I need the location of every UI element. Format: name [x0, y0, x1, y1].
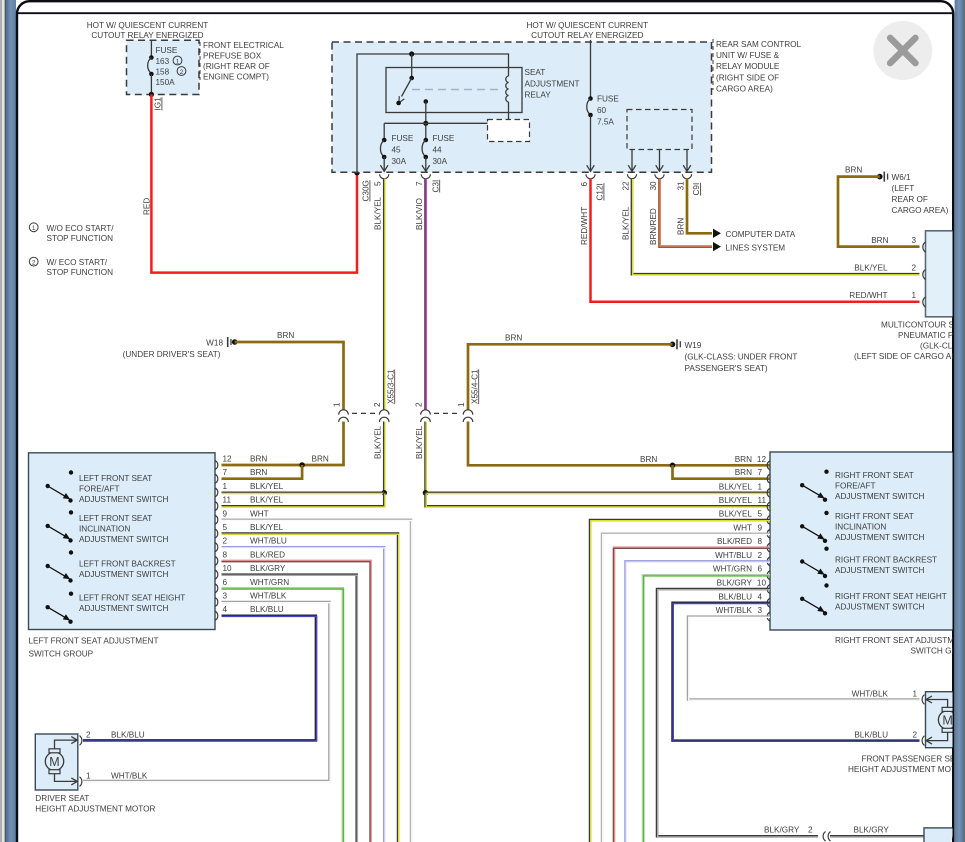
wire subbox out 2 [656, 150, 664, 172]
svg-text:2: 2 [911, 264, 916, 273]
svg-text:C9I: C9I [692, 183, 701, 196]
svg-text:W/O ECO START/: W/O ECO START/ [47, 224, 115, 233]
wire BRN pin31 to computer data [687, 179, 712, 234]
svg-text:FORE/AFT: FORE/AFT [79, 485, 119, 494]
wire BLK/YEL SAM pin5 down [383, 179, 386, 410]
wire RED/WHT pin6 to multicontour pin1 [591, 179, 920, 302]
svg-text:BLK/BLU: BLK/BLU [250, 605, 284, 614]
wire BRN/RED pin30 to computer data [660, 179, 713, 247]
svg-text:12: 12 [757, 455, 767, 464]
svg-text:BRN: BRN [505, 333, 522, 342]
svg-text:BLK/RED: BLK/RED [717, 537, 752, 546]
wire subbox out 1 [628, 150, 636, 172]
wire BRN W18 to connector X55/3 pin1 [235, 342, 344, 410]
svg-text:BRN/RED: BRN/RED [649, 208, 658, 245]
wire WHT/BLK left pin3 to driver motor pin1 [83, 602, 329, 781]
svg-text:2: 2 [757, 551, 762, 560]
svg-text:2: 2 [32, 260, 36, 267]
label passenger motor [848, 755, 965, 775]
svg-text:22: 22 [622, 181, 631, 191]
svg-text:W19: W19 [685, 341, 702, 350]
svg-text:C12I: C12I [596, 183, 605, 200]
svg-text:FRONT PASSENGER SEAT: FRONT PASSENGER SEAT [862, 755, 965, 764]
svg-text:1: 1 [457, 402, 466, 407]
wire BLK/BLU left pin4 to driver motor pin2 [83, 616, 316, 741]
svg-text:BLK/RED: BLK/RED [250, 550, 285, 559]
svg-text:UNIT W/ FUSE &: UNIT W/ FUSE & [716, 51, 780, 60]
svg-text:ADJUSTMENT SWITCH: ADJUSTMENT SWITCH [79, 495, 169, 504]
svg-text:W6/1: W6/1 [892, 173, 912, 182]
svg-text:2: 2 [86, 731, 91, 740]
close button [873, 21, 932, 80]
left gray gutter [0, 0, 2, 842]
svg-text:12: 12 [223, 455, 233, 464]
right box wire colour labels [713, 455, 753, 615]
svg-text:FUSE: FUSE [156, 46, 178, 55]
svg-text:WHT/BLK: WHT/BLK [716, 606, 753, 615]
svg-text:WHT: WHT [733, 523, 752, 532]
svg-text:WHT/GRN: WHT/GRN [713, 565, 752, 574]
svg-text:4: 4 [757, 592, 762, 601]
svg-text:1: 1 [333, 402, 342, 407]
svg-text:3: 3 [757, 606, 762, 615]
svg-text:2: 2 [223, 537, 228, 546]
svg-text:PREFUSE BOX: PREFUSE BOX [203, 51, 262, 60]
wire WHT right pin9 [602, 534, 770, 842]
dashed component box lower [488, 120, 530, 142]
wire top rail inside SAM [357, 54, 509, 173]
switch left fore/aft [46, 470, 169, 504]
wire BRN W19 to connector X55/4 pin1 [468, 344, 673, 409]
svg-text:(UNDER DRIVER'S SEAT): (UNDER DRIVER'S SEAT) [123, 350, 221, 359]
svg-text:FUSE: FUSE [392, 134, 414, 143]
svg-text:STOP FUNCTION: STOP FUNCTION [47, 234, 114, 243]
junction RED at SAM bottom [354, 170, 360, 176]
svg-text:ADJUSTMENT SWITCH: ADJUSTMENT SWITCH [79, 570, 169, 579]
label left switch group [29, 637, 159, 659]
driver seat height adjustment motor box [35, 734, 78, 790]
svg-text:C3I: C3I [431, 180, 440, 193]
label seat adjustment relay [525, 68, 580, 100]
svg-text:BLK/GRY: BLK/GRY [717, 579, 753, 588]
svg-text:INCLINATION: INCLINATION [835, 523, 886, 532]
svg-text:M: M [49, 755, 59, 769]
relay mechanical dashed link [412, 89, 503, 91]
svg-text:BLK/YEL: BLK/YEL [250, 496, 284, 505]
fuse F45 30A [380, 123, 413, 171]
svg-text:SEAT: SEAT [525, 68, 546, 77]
svg-text:11: 11 [223, 496, 232, 505]
fuse F60 7.5A [587, 40, 620, 171]
svg-text:ENGINE COMPT): ENGINE COMPT) [203, 73, 269, 82]
svg-text:9: 9 [223, 509, 228, 518]
svg-text:HOT W/ QUIESCENT CURRENT: HOT W/ QUIESCENT CURRENT [87, 21, 209, 30]
motor M1 symbol [45, 737, 77, 785]
front electrical prefuse box [127, 40, 200, 94]
right blue scrollbar strip [955, 0, 964, 842]
svg-text:PASSENGER'S SEAT): PASSENGER'S SEAT) [685, 364, 768, 373]
svg-text:44: 44 [433, 146, 443, 155]
svg-text:10: 10 [757, 579, 767, 588]
svg-text:BLK/YEL: BLK/YEL [719, 482, 753, 491]
wire WHT/BLU right pin2 [626, 561, 771, 842]
wire WHT/GRN right pin6 [643, 575, 770, 842]
svg-text:FRONT ELECTRICAL: FRONT ELECTRICAL [203, 41, 284, 50]
svg-text:3: 3 [911, 236, 916, 245]
junction BLK/YEL right [423, 490, 429, 496]
svg-text:HOT W/ QUIESCENT CURRENT: HOT W/ QUIESCENT CURRENT [526, 21, 648, 30]
wire BLK/BLU right pin4 to passenger motor pin2 [673, 603, 920, 741]
svg-text:6: 6 [580, 182, 589, 187]
svg-text:7.5A: 7.5A [597, 118, 614, 127]
wire BLK/YEL left pin5 [222, 534, 399, 842]
inline connector bottom BLK/GRY [823, 832, 830, 842]
wire BLK/YEL below X55/4 [424, 422, 427, 493]
svg-text:ADJUSTMENT: ADJUSTMENT [525, 79, 580, 88]
svg-text:BLK/GRY: BLK/GRY [250, 564, 286, 573]
svg-text:BRN: BRN [312, 455, 329, 464]
wire coil to sub box [508, 102, 510, 120]
label HOT feed left [87, 21, 209, 40]
label computer data lines system [726, 230, 796, 252]
junction node fuse feed [423, 121, 428, 126]
svg-text:ADJUSTMENT SWITCH: ADJUSTMENT SWITCH [79, 535, 169, 544]
svg-text:BRN: BRN [250, 455, 267, 464]
svg-text:CARGO AREA): CARGO AREA) [892, 206, 949, 215]
front passenger seat height adjustment motor box [926, 692, 965, 748]
svg-text:X55/3-C1: X55/3-C1 [386, 369, 395, 404]
svg-text:INCLINATION: INCLINATION [79, 525, 130, 534]
svg-text:ADJUSTMENT SWITCH: ADJUSTMENT SWITCH [835, 566, 925, 575]
switch left seat height [46, 592, 186, 624]
wire BLK/YEL pin22 to multicontour pin2 [632, 179, 920, 275]
wire fuse feed rail [384, 122, 487, 124]
svg-text:1: 1 [911, 291, 916, 300]
svg-text:WHT/GRN: WHT/GRN [250, 578, 289, 587]
svg-text:150A: 150A [156, 78, 176, 87]
switch right fore/aft [800, 470, 925, 502]
svg-text:2: 2 [180, 69, 184, 76]
wire WHT/GRN left pin6 [222, 588, 343, 842]
svg-text:8: 8 [223, 550, 228, 559]
ground W6/1 [877, 172, 949, 215]
svg-text:HEIGHT ADJUSTMENT MOTOR: HEIGHT ADJUSTMENT MOTOR [35, 805, 155, 814]
svg-text:BLK/BLU: BLK/BLU [718, 592, 752, 601]
ground W18 [123, 337, 238, 359]
svg-text:W18: W18 [206, 339, 223, 348]
rear component box bottom right [924, 828, 965, 842]
svg-text:2: 2 [373, 402, 382, 407]
ground W19 [670, 339, 798, 373]
wire BLK/GRY to rear box segment 2 [830, 835, 924, 838]
svg-text:BRN: BRN [871, 236, 888, 245]
svg-text:CUTOUT RELAY ENERGIZED: CUTOUT RELAY ENERGIZED [531, 31, 643, 40]
svg-text:5: 5 [223, 523, 228, 532]
svg-text:BRN: BRN [735, 468, 752, 477]
svg-text:CARGO AREA): CARGO AREA) [716, 85, 773, 94]
junction BRN left [299, 462, 305, 468]
svg-text:BLK/YEL: BLK/YEL [250, 523, 284, 532]
driver motor connector pin1 [80, 777, 82, 787]
svg-text:FUSE: FUSE [433, 134, 455, 143]
svg-text:COMPUTER DATA: COMPUTER DATA [726, 230, 796, 239]
svg-text:BLK/BLU: BLK/BLU [111, 731, 145, 740]
svg-text:45: 45 [392, 146, 402, 155]
wire RED from prefuse to SAM [151, 94, 357, 272]
svg-text:(GLK-CLASS: UNDER FRONT: (GLK-CLASS: UNDER FRONT [685, 353, 798, 362]
wire BRN left box pin7 [222, 465, 303, 479]
svg-text:158: 158 [156, 68, 170, 77]
svg-text:BRN: BRN [677, 218, 686, 235]
svg-text:CUTOUT RELAY ENERGIZED: CUTOUT RELAY ENERGIZED [91, 31, 203, 40]
wire BRN W6/1 to multicontour pin3 [838, 177, 920, 247]
right front seat adjustment switch group box [770, 452, 960, 630]
svg-text:2: 2 [912, 730, 917, 739]
left box pin numbers [223, 455, 233, 615]
arrow computer data 1 [713, 229, 721, 238]
wire BLK/YEL left pin1 [222, 492, 385, 495]
svg-text:BLK/YEL: BLK/YEL [415, 425, 424, 459]
SAM exit connector bumps [380, 174, 692, 179]
svg-text:HEIGHT ADJUSTMENT MOTOR: HEIGHT ADJUSTMENT MOTOR [848, 765, 965, 774]
svg-text:1: 1 [912, 689, 917, 698]
dashed component box in SAM right [627, 110, 692, 150]
svg-text:5: 5 [374, 181, 383, 186]
svg-text:RED/WHT: RED/WHT [580, 207, 589, 245]
connector X55/4-C1 [421, 410, 473, 422]
rear SAM control unit box [332, 42, 712, 172]
svg-text:30A: 30A [433, 157, 448, 166]
svg-text:BLK/YEL: BLK/YEL [374, 196, 383, 230]
svg-text:30A: 30A [392, 157, 407, 166]
svg-text:W/ ECO START/: W/ ECO START/ [47, 258, 108, 267]
svg-text:BRN: BRN [845, 166, 862, 175]
svg-text:RIGHT FRONT SEAT: RIGHT FRONT SEAT [835, 512, 914, 521]
wire subbox out 3 [683, 150, 691, 172]
svg-text:RIGHT FRONT SEAT HEIGHT: RIGHT FRONT SEAT HEIGHT [835, 592, 947, 601]
wire BLK/YEL right pin1 [426, 492, 771, 495]
svg-text:(LEFT SIDE OF CARGO AREA): (LEFT SIDE OF CARGO AREA) [854, 352, 965, 361]
svg-text:C30G: C30G [362, 180, 371, 201]
svg-text:WHT/BLU: WHT/BLU [250, 537, 287, 546]
svg-text:163: 163 [156, 57, 170, 66]
svg-text:LEFT FRONT SEAT HEIGHT: LEFT FRONT SEAT HEIGHT [79, 594, 185, 603]
svg-text:7: 7 [223, 468, 228, 477]
fuse F44 30A [422, 123, 455, 171]
relay output contact [424, 99, 429, 104]
footnote 2 [29, 257, 113, 277]
svg-text:IG1: IG1 [154, 97, 163, 111]
svg-text:30: 30 [649, 181, 658, 191]
svg-text:BLK/YEL: BLK/YEL [250, 482, 284, 491]
svg-text:2: 2 [415, 402, 424, 407]
svg-text:8: 8 [757, 537, 762, 546]
wire BRN below X55/3 to left box pin12 [222, 422, 344, 466]
passenger motor connector pin2 [922, 736, 924, 746]
wire BLK/YEL below X55/3 [383, 422, 386, 493]
svg-text:FUSE: FUSE [597, 95, 619, 104]
svg-text:6: 6 [757, 565, 762, 574]
svg-text:WHT/BLK: WHT/BLK [852, 689, 889, 698]
fuse F163/158 150A [148, 40, 186, 94]
svg-text:LEFT FRONT SEAT: LEFT FRONT SEAT [79, 474, 152, 483]
wire BLK/RED left pin8 [222, 561, 371, 842]
svg-text:(LEFT: (LEFT [892, 184, 915, 193]
wire BLK/VIO SAM pin7 down [424, 179, 427, 410]
svg-text:BRN: BRN [640, 455, 657, 464]
svg-text:1: 1 [223, 482, 228, 491]
wire BLK/YEL right pin11 [426, 493, 771, 507]
label HOT feed right [526, 21, 648, 40]
left box connector bumps [215, 461, 218, 621]
svg-text:X55/4-C1: X55/4-C1 [470, 369, 479, 404]
svg-text:BLK/YEL: BLK/YEL [854, 264, 888, 273]
svg-text:DRIVER SEAT: DRIVER SEAT [35, 794, 89, 803]
wire BLK/GRY right pin10 to rear box [657, 589, 818, 836]
prefuse box label callout [200, 41, 284, 82]
switch right inclination [800, 511, 925, 543]
svg-text:11: 11 [758, 496, 767, 505]
wire WHT left pin9 [222, 520, 412, 842]
wire WHT/BLU left pin2 [222, 547, 385, 842]
svg-text:9: 9 [757, 523, 762, 532]
svg-text:2: 2 [808, 826, 813, 835]
svg-text:BLK/YEL: BLK/YEL [719, 510, 753, 519]
svg-text:ADJUSTMENT SWITCH: ADJUSTMENT SWITCH [835, 603, 925, 612]
svg-text:7: 7 [757, 468, 762, 477]
svg-text:1: 1 [757, 482, 762, 491]
svg-text:6: 6 [223, 578, 228, 587]
junction at prefuse box bottom [149, 92, 154, 97]
relay coil [506, 76, 509, 102]
svg-text:BLK/YEL: BLK/YEL [374, 425, 383, 459]
svg-text:60: 60 [597, 106, 607, 115]
wire BLK/GRY left pin10 [222, 575, 357, 842]
svg-text:LEFT FRONT SEAT: LEFT FRONT SEAT [79, 514, 152, 523]
left front seat adjustment switch group box [29, 453, 216, 630]
svg-text:BLK/YEL: BLK/YEL [622, 206, 631, 240]
motor M2 symbol [926, 696, 957, 744]
svg-text:BLK/GRY: BLK/GRY [854, 826, 890, 835]
svg-text:BLK/GRY: BLK/GRY [764, 826, 800, 835]
svg-text:1: 1 [176, 58, 180, 65]
svg-text:LINES SYSTEM: LINES SYSTEM [726, 243, 786, 252]
svg-text:BLK/BLU: BLK/BLU [854, 730, 888, 739]
svg-text:7: 7 [415, 181, 424, 186]
svg-text:RIGHT FRONT SEAT: RIGHT FRONT SEAT [835, 471, 914, 480]
right box pin numbers [757, 455, 767, 615]
svg-text:WHT/BLK: WHT/BLK [250, 592, 287, 601]
multicontour seat pneumatic pump box [926, 231, 965, 317]
switch left backrest [46, 550, 176, 582]
footnote 1 [29, 223, 114, 243]
svg-text:RIGHT FRONT BACKREST: RIGHT FRONT BACKREST [835, 556, 937, 565]
wire BRN below X55/4 to right box pin12 [468, 422, 770, 466]
left box wire colour labels [250, 455, 289, 615]
svg-text:ADJUSTMENT SWITCH: ADJUSTMENT SWITCH [79, 604, 169, 613]
svg-text:ADJUSTMENT SWITCH: ADJUSTMENT SWITCH [835, 533, 925, 542]
diagram frame top line [18, 12, 953, 14]
relay contact dot [396, 101, 401, 106]
svg-text:REAR SAM CONTROL: REAR SAM CONTROL [716, 40, 802, 49]
svg-text:ADJUSTMENT SWITCH: ADJUSTMENT SWITCH [835, 492, 925, 501]
multicontour pin connectors [923, 242, 926, 307]
junction node rail/switch [409, 51, 414, 56]
svg-text:MULTICONTOUR SEAT: MULTICONTOUR SEAT [881, 321, 965, 330]
svg-text:BRN: BRN [735, 455, 752, 464]
svg-text:RIGHT FRONT SEAT ADJUSTMENT: RIGHT FRONT SEAT ADJUSTMENT [835, 636, 965, 645]
svg-text:4: 4 [223, 605, 228, 614]
label right switch group [835, 636, 965, 656]
junction BLK/YEL left [381, 490, 387, 496]
svg-text:RELAY: RELAY [525, 91, 552, 100]
svg-text:BLK/VIO: BLK/VIO [415, 198, 424, 230]
svg-text:1: 1 [32, 225, 36, 232]
svg-text:FORE/AFT: FORE/AFT [835, 482, 875, 491]
connector X55/3-C1 [339, 410, 389, 422]
svg-text:LEFT FRONT BACKREST: LEFT FRONT BACKREST [79, 559, 176, 568]
svg-text:STOP FUNCTION: STOP FUNCTION [47, 268, 114, 277]
svg-text:WHT/BLK: WHT/BLK [111, 771, 148, 780]
switch right backrest [800, 547, 937, 579]
svg-text:M: M [942, 713, 952, 727]
svg-text:5: 5 [757, 510, 762, 519]
svg-text:REAR OF: REAR OF [892, 195, 928, 204]
passenger motor connector pin1 [922, 695, 924, 705]
svg-text:(RIGHT REAR OF: (RIGHT REAR OF [203, 62, 270, 71]
right box connector bumps [767, 461, 770, 621]
label driver seat motor [35, 794, 155, 814]
left blue scrollbar strip [6, 0, 16, 842]
SAM box label callout [713, 39, 802, 94]
svg-text:3: 3 [223, 592, 228, 601]
seat adjustment relay box [386, 68, 522, 113]
svg-text:BRN: BRN [250, 468, 267, 477]
label multicontour [854, 321, 965, 362]
svg-text:LEFT FRONT SEAT ADJUSTMENT: LEFT FRONT SEAT ADJUSTMENT [29, 637, 159, 646]
svg-text:SWITCH GROUP: SWITCH GROUP [29, 650, 94, 659]
svg-text:10: 10 [223, 564, 233, 573]
switch left inclination [46, 510, 169, 544]
wire BRN right box pin7 [673, 465, 771, 478]
wire BLK/YEL left pin11 [222, 493, 385, 507]
svg-text:WHT: WHT [250, 509, 269, 518]
svg-text:RELAY MODULE: RELAY MODULE [716, 62, 780, 71]
svg-text:(RIGHT SIDE OF: (RIGHT SIDE OF [716, 73, 779, 82]
svg-text:31: 31 [677, 181, 686, 191]
relay switch common stub [411, 54, 413, 78]
svg-text:BRN: BRN [277, 331, 294, 340]
junction BRN right [670, 463, 676, 469]
wire BLK/YEL right pin5 [590, 520, 770, 842]
svg-text:1: 1 [86, 771, 91, 780]
arrow computer data 2 [713, 242, 721, 251]
wire BLK/RED right pin8 [614, 548, 770, 842]
svg-text:WHT/BLU: WHT/BLU [715, 551, 752, 560]
driver motor connector pin2 [80, 736, 82, 746]
svg-text:RED/WHT: RED/WHT [849, 291, 887, 300]
wire relay contact down [425, 102, 427, 124]
wire WHT/BLK right pin3 to passenger motor pin1 [688, 617, 920, 700]
svg-text:BLK/YEL: BLK/YEL [719, 496, 753, 505]
relay switch blade [402, 78, 412, 97]
switch right seat height [800, 583, 947, 615]
